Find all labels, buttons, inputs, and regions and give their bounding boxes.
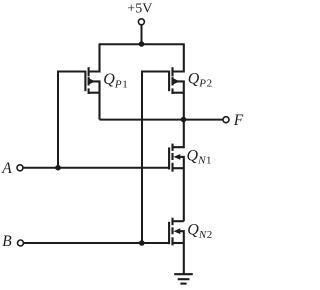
svg-text:A: A (1, 160, 12, 177)
svg-text:F: F (233, 112, 244, 129)
svg-text:+5V: +5V (127, 1, 152, 16)
svg-text:B: B (2, 233, 12, 250)
